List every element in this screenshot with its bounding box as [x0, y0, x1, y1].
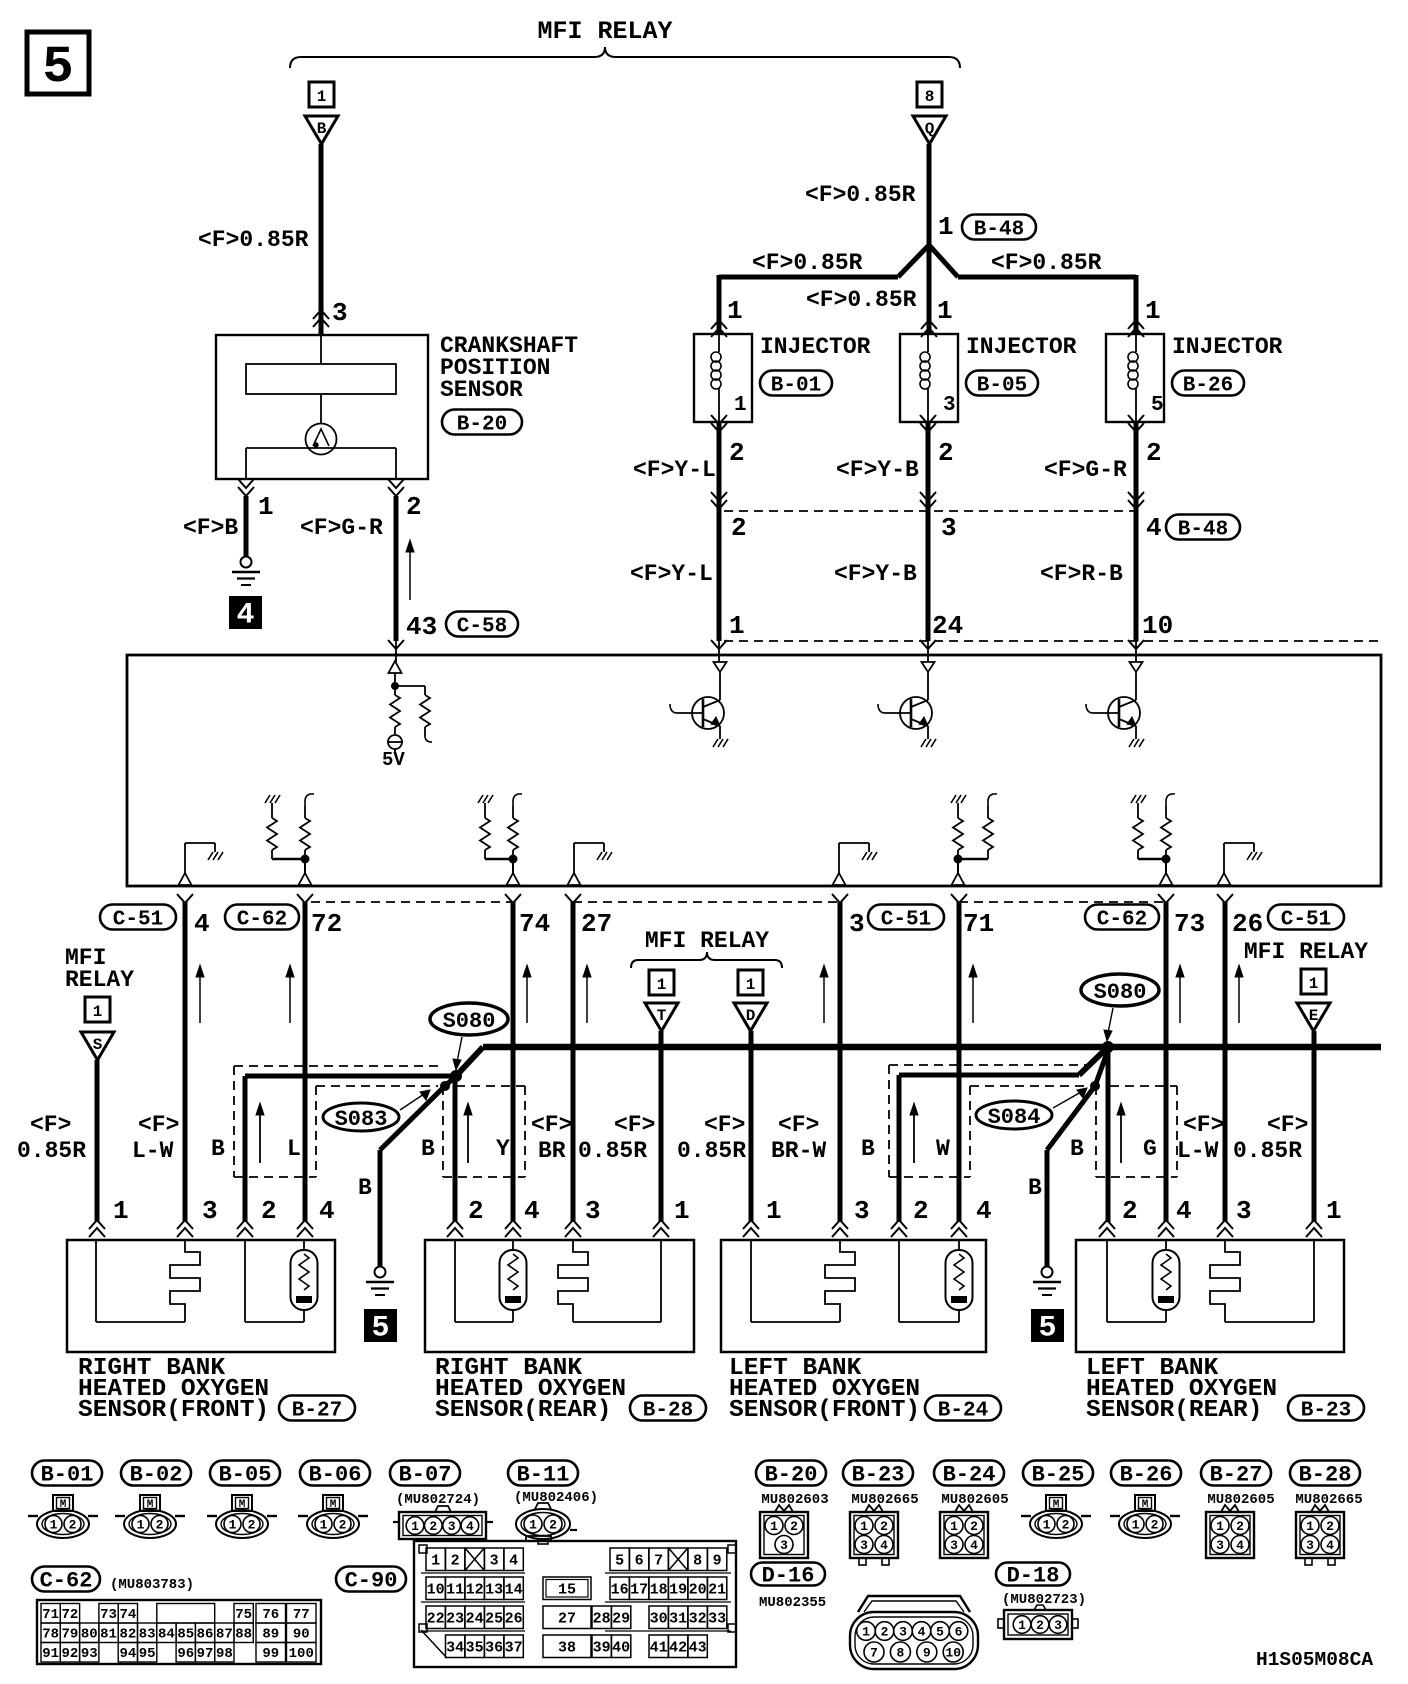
svg-text:2: 2	[1122, 1196, 1138, 1226]
svg-text:2: 2	[429, 1519, 437, 1534]
svg-text:95: 95	[139, 1646, 156, 1662]
svg-text:89: 89	[262, 1627, 279, 1643]
svg-text:2: 2	[1236, 1519, 1244, 1534]
svg-text:2: 2	[248, 1518, 256, 1533]
svg-text:BR: BR	[538, 1138, 566, 1164]
svg-text:43: 43	[689, 1640, 707, 1657]
svg-text:<F>: <F>	[138, 1112, 179, 1138]
svg-text:0.85R: 0.85R	[1233, 1138, 1302, 1164]
svg-text:<F>Y-B: <F>Y-B	[834, 561, 917, 587]
svg-text:74: 74	[119, 1607, 136, 1623]
svg-text:22: 22	[427, 1611, 445, 1628]
svg-text:INJECTOR: INJECTOR	[760, 334, 871, 360]
svg-text:5: 5	[1151, 394, 1164, 417]
svg-text:INJECTOR: INJECTOR	[966, 334, 1077, 360]
svg-text:75: 75	[235, 1607, 252, 1623]
svg-text:1: 1	[727, 296, 743, 326]
svg-text:B-20: B-20	[457, 413, 507, 436]
svg-text:MU802355: MU802355	[759, 1595, 826, 1611]
svg-text:19: 19	[669, 1582, 687, 1599]
svg-text:MU802605: MU802605	[941, 1492, 1008, 1508]
svg-text:14: 14	[505, 1582, 523, 1599]
svg-text:34: 34	[446, 1640, 464, 1657]
svg-text:3: 3	[1054, 1618, 1062, 1633]
svg-text:SENSOR(REAR): SENSOR(REAR)	[1086, 1397, 1262, 1424]
svg-text:3: 3	[943, 394, 956, 417]
svg-text:B-23: B-23	[852, 1463, 905, 1488]
svg-text:82: 82	[119, 1627, 136, 1643]
svg-text:B-06: B-06	[309, 1463, 362, 1488]
svg-text:23: 23	[446, 1611, 464, 1628]
svg-text:4: 4	[1176, 1196, 1192, 1226]
svg-text:<F>G-R: <F>G-R	[1044, 457, 1127, 483]
svg-text:2: 2	[69, 1518, 77, 1533]
svg-text:2: 2	[156, 1518, 164, 1533]
svg-text:0.85R: 0.85R	[578, 1138, 647, 1164]
svg-text:4: 4	[918, 1625, 926, 1640]
svg-text:4: 4	[524, 1196, 540, 1226]
svg-text:42: 42	[669, 1640, 687, 1657]
svg-text:2: 2	[881, 1625, 889, 1640]
svg-text:B-05: B-05	[219, 1463, 272, 1488]
svg-text:<F>: <F>	[704, 1112, 745, 1138]
svg-text:C-62: C-62	[1097, 908, 1147, 931]
svg-text:2: 2	[913, 1196, 929, 1226]
svg-text:SENSOR: SENSOR	[440, 377, 523, 403]
svg-text:1: 1	[860, 1519, 868, 1534]
svg-text:8: 8	[693, 1553, 702, 1570]
svg-text:2: 2	[1326, 1519, 1334, 1534]
svg-text:2: 2	[729, 438, 745, 468]
svg-text:1: 1	[766, 1196, 782, 1226]
svg-text:C-51: C-51	[881, 908, 931, 931]
svg-text:MU802665: MU802665	[1295, 1492, 1362, 1508]
svg-text:Y: Y	[496, 1136, 510, 1162]
svg-text:85: 85	[177, 1627, 194, 1643]
svg-text:B: B	[211, 1136, 225, 1162]
svg-text:29: 29	[612, 1611, 630, 1628]
svg-text:<F>: <F>	[1267, 1112, 1308, 1138]
svg-text:4: 4	[1236, 1538, 1244, 1553]
svg-text:1: 1	[657, 976, 667, 994]
svg-text:B-24: B-24	[938, 1399, 988, 1422]
svg-text:12: 12	[466, 1582, 484, 1599]
svg-text:6: 6	[955, 1625, 963, 1640]
svg-text:B-28: B-28	[1299, 1463, 1352, 1488]
svg-text:3: 3	[854, 1196, 870, 1226]
svg-text:B-25: B-25	[1032, 1463, 1085, 1488]
svg-text:1: 1	[50, 1518, 58, 1533]
svg-text:1: 1	[229, 1518, 237, 1533]
svg-text:(MU803783): (MU803783)	[110, 1577, 194, 1593]
svg-text:L-W: L-W	[132, 1138, 174, 1164]
svg-text:43: 43	[406, 612, 437, 642]
svg-text:81: 81	[100, 1627, 117, 1643]
svg-text:BR-W: BR-W	[771, 1138, 826, 1164]
svg-text:39: 39	[593, 1640, 611, 1657]
svg-text:38: 38	[558, 1640, 576, 1657]
svg-text:D-16: D-16	[762, 1564, 815, 1589]
svg-text:1: 1	[1216, 1519, 1224, 1534]
svg-text:1: 1	[770, 1519, 778, 1534]
svg-text:2: 2	[549, 1518, 557, 1533]
svg-text:7: 7	[870, 1646, 878, 1661]
svg-text:1: 1	[113, 1196, 129, 1226]
svg-text:27: 27	[581, 909, 612, 939]
svg-text:1: 1	[93, 1003, 103, 1021]
svg-text:5: 5	[42, 38, 73, 97]
svg-text:96: 96	[177, 1646, 194, 1662]
svg-text:20: 20	[689, 1582, 707, 1599]
svg-text:<F>0.85R: <F>0.85R	[991, 250, 1102, 276]
svg-text:13: 13	[485, 1582, 503, 1599]
svg-text:4: 4	[880, 1538, 888, 1553]
svg-text:B: B	[421, 1136, 435, 1162]
svg-text:B-02: B-02	[130, 1463, 183, 1488]
svg-text:2: 2	[261, 1196, 277, 1226]
svg-text:B-48: B-48	[974, 218, 1024, 241]
svg-text:SENSOR(FRONT): SENSOR(FRONT)	[78, 1397, 269, 1424]
svg-text:C-90: C-90	[345, 1569, 398, 1594]
svg-text:<F>0.85R: <F>0.85R	[198, 227, 309, 253]
svg-text:2: 2	[406, 492, 422, 522]
svg-text:1: 1	[950, 1519, 958, 1534]
svg-text:10: 10	[427, 1582, 445, 1599]
svg-text:1: 1	[1132, 1518, 1140, 1533]
svg-text:0.85R: 0.85R	[17, 1138, 86, 1164]
svg-text:B: B	[861, 1136, 875, 1162]
svg-text:3: 3	[202, 1196, 218, 1226]
svg-text:B-11: B-11	[517, 1463, 570, 1488]
svg-text:5: 5	[936, 1625, 944, 1640]
svg-text:SENSOR(REAR): SENSOR(REAR)	[435, 1397, 611, 1424]
svg-text:84: 84	[158, 1627, 175, 1643]
svg-text:2: 2	[1062, 1518, 1070, 1533]
svg-text:1: 1	[317, 88, 327, 106]
svg-text:2: 2	[1146, 438, 1162, 468]
svg-text:B-26: B-26	[1183, 374, 1233, 397]
svg-text:B-27: B-27	[292, 1399, 342, 1422]
svg-text:B-27: B-27	[1210, 1463, 1263, 1488]
svg-text:2: 2	[970, 1519, 978, 1534]
svg-text:S080: S080	[443, 1009, 496, 1034]
svg-text:3: 3	[1306, 1538, 1314, 1553]
svg-text:MFI RELAY: MFI RELAY	[1244, 939, 1368, 965]
svg-text:4: 4	[194, 909, 210, 939]
svg-text:71: 71	[963, 909, 994, 939]
svg-text:Q: Q	[925, 120, 935, 138]
svg-text:B: B	[358, 1175, 372, 1201]
svg-text:B-48: B-48	[1178, 518, 1228, 541]
svg-text:1: 1	[1306, 1519, 1314, 1534]
svg-text:1: 1	[529, 1518, 537, 1533]
svg-text:<F>B: <F>B	[183, 515, 238, 541]
svg-text:<F>0.85R: <F>0.85R	[752, 250, 863, 276]
svg-text:<F>0.85R: <F>0.85R	[806, 287, 917, 313]
svg-text:D-18: D-18	[1007, 1564, 1060, 1589]
svg-text:C-58: C-58	[457, 615, 507, 638]
svg-text:S080: S080	[1094, 980, 1147, 1005]
svg-text:26: 26	[1232, 909, 1263, 939]
svg-text:B-20: B-20	[765, 1463, 818, 1488]
svg-text:B-07: B-07	[399, 1463, 452, 1488]
svg-text:8: 8	[925, 88, 935, 106]
svg-text:1: 1	[937, 296, 953, 326]
svg-text:5: 5	[615, 1553, 624, 1570]
svg-text:MFI RELAY: MFI RELAY	[645, 928, 769, 954]
svg-text:2: 2	[1151, 1518, 1159, 1533]
svg-text:3: 3	[585, 1196, 601, 1226]
svg-text:1: 1	[734, 394, 747, 417]
svg-text:4: 4	[970, 1538, 978, 1553]
svg-text:86: 86	[197, 1627, 214, 1643]
svg-text:5: 5	[371, 1312, 389, 1346]
svg-text:3: 3	[780, 1538, 788, 1553]
svg-text:99: 99	[262, 1646, 279, 1662]
svg-text:4: 4	[466, 1519, 474, 1534]
svg-text:T: T	[657, 1007, 667, 1025]
svg-text:1: 1	[729, 611, 745, 641]
svg-text:35: 35	[466, 1640, 484, 1657]
svg-text:4: 4	[1326, 1538, 1334, 1553]
svg-text:2: 2	[451, 1553, 460, 1570]
svg-text:S084: S084	[988, 1105, 1041, 1130]
svg-text:1: 1	[1018, 1618, 1026, 1633]
svg-text:S: S	[93, 1036, 103, 1054]
svg-text:11: 11	[446, 1582, 464, 1599]
svg-text:27: 27	[558, 1611, 576, 1628]
svg-text:87: 87	[216, 1627, 233, 1643]
svg-text:1: 1	[674, 1196, 690, 1226]
svg-text:B: B	[1028, 1175, 1042, 1201]
svg-text:<F>: <F>	[531, 1112, 572, 1138]
svg-text:4: 4	[319, 1196, 335, 1226]
svg-text:B-24: B-24	[943, 1463, 996, 1488]
svg-text:72: 72	[311, 909, 342, 939]
svg-text:B: B	[1070, 1136, 1084, 1162]
svg-text:88: 88	[235, 1627, 252, 1643]
svg-text:77: 77	[293, 1607, 310, 1623]
svg-text:MU802603: MU802603	[761, 1492, 828, 1508]
svg-text:L-W: L-W	[1177, 1138, 1219, 1164]
svg-text:76: 76	[262, 1607, 279, 1623]
svg-text:93: 93	[81, 1646, 98, 1662]
svg-text:RELAY: RELAY	[65, 967, 134, 993]
svg-text:C-62: C-62	[237, 908, 287, 931]
svg-text:<F>: <F>	[30, 1112, 71, 1138]
svg-text:4: 4	[509, 1553, 518, 1570]
svg-text:73: 73	[100, 1607, 117, 1623]
svg-text:24: 24	[466, 1611, 484, 1628]
svg-text:1: 1	[1043, 1518, 1051, 1533]
svg-text:B-28: B-28	[643, 1399, 693, 1422]
svg-text:L: L	[287, 1136, 301, 1162]
svg-text:15: 15	[558, 1582, 576, 1599]
svg-text:1: 1	[746, 976, 756, 994]
svg-text:2: 2	[731, 513, 747, 543]
svg-text:10: 10	[1142, 611, 1173, 641]
svg-text:<F>Y-L: <F>Y-L	[633, 457, 716, 483]
svg-text:3: 3	[490, 1553, 499, 1570]
svg-text:36: 36	[485, 1640, 503, 1657]
svg-text:9: 9	[713, 1553, 722, 1570]
svg-text:4: 4	[1146, 513, 1162, 543]
svg-text:40: 40	[612, 1640, 630, 1657]
svg-text:1: 1	[862, 1625, 870, 1640]
svg-text:<F>: <F>	[778, 1112, 819, 1138]
svg-text:W: W	[936, 1136, 950, 1162]
svg-text:1: 1	[938, 212, 954, 242]
svg-text:6: 6	[635, 1553, 644, 1570]
svg-text:8: 8	[896, 1646, 904, 1661]
svg-text:3: 3	[849, 909, 865, 939]
svg-text:G: G	[1143, 1136, 1157, 1162]
svg-text:7: 7	[654, 1553, 663, 1570]
svg-text:41: 41	[650, 1640, 668, 1657]
svg-text:1: 1	[1326, 1196, 1342, 1226]
svg-text:28: 28	[593, 1611, 611, 1628]
svg-text:4: 4	[976, 1196, 992, 1226]
svg-text:<F>0.85R: <F>0.85R	[805, 182, 916, 208]
svg-text:31: 31	[669, 1611, 687, 1628]
svg-text:<F>R-B: <F>R-B	[1040, 561, 1123, 587]
svg-text:83: 83	[139, 1627, 156, 1643]
svg-text:72: 72	[62, 1607, 79, 1623]
svg-text:(MU802406): (MU802406)	[514, 1490, 598, 1506]
svg-text:H1S05M08CA: H1S05M08CA	[1256, 1649, 1373, 1671]
svg-text:24: 24	[932, 611, 963, 641]
svg-text:4: 4	[236, 599, 254, 633]
svg-text:97: 97	[197, 1646, 214, 1662]
svg-text:B-05: B-05	[977, 374, 1027, 397]
svg-text:C-51: C-51	[113, 908, 163, 931]
svg-text:25: 25	[485, 1611, 503, 1628]
svg-text:32: 32	[689, 1611, 707, 1628]
svg-text:B-26: B-26	[1120, 1463, 1173, 1488]
svg-text:MFI RELAY: MFI RELAY	[537, 17, 672, 46]
svg-text:3: 3	[950, 1538, 958, 1553]
svg-text:MU802665: MU802665	[851, 1492, 918, 1508]
svg-text:80: 80	[81, 1627, 98, 1643]
svg-text:1: 1	[431, 1553, 440, 1570]
svg-text:2: 2	[1036, 1618, 1044, 1633]
svg-text:30: 30	[650, 1611, 668, 1628]
svg-text:1: 1	[258, 492, 274, 522]
svg-text:17: 17	[630, 1582, 648, 1599]
svg-text:C-51: C-51	[1281, 908, 1331, 931]
svg-text:33: 33	[708, 1611, 726, 1628]
svg-text:71: 71	[42, 1607, 59, 1623]
svg-text:E: E	[1309, 1007, 1319, 1025]
svg-text:B-23: B-23	[1301, 1399, 1351, 1422]
svg-text:<F>: <F>	[614, 1112, 655, 1138]
svg-text:78: 78	[42, 1627, 59, 1643]
svg-text:9: 9	[923, 1646, 931, 1661]
svg-text:B-01: B-01	[771, 374, 821, 397]
svg-text:79: 79	[62, 1627, 79, 1643]
svg-text:INJECTOR: INJECTOR	[1172, 334, 1283, 360]
svg-text:2: 2	[880, 1519, 888, 1534]
svg-text:37: 37	[505, 1640, 523, 1657]
svg-text:2: 2	[790, 1519, 798, 1534]
svg-text:3: 3	[860, 1538, 868, 1553]
svg-text:16: 16	[611, 1582, 629, 1599]
svg-text:S083: S083	[335, 1107, 388, 1132]
svg-text:1: 1	[137, 1518, 145, 1533]
svg-text:<F>: <F>	[1183, 1112, 1224, 1138]
svg-text:2: 2	[938, 438, 954, 468]
svg-text:10: 10	[945, 1646, 961, 1661]
svg-text:91: 91	[42, 1646, 59, 1662]
svg-text:B-01: B-01	[41, 1463, 94, 1488]
svg-text:74: 74	[519, 909, 550, 939]
svg-text:1: 1	[320, 1518, 328, 1533]
svg-text:<F>G-R: <F>G-R	[300, 515, 383, 541]
svg-text:5: 5	[1038, 1312, 1056, 1346]
svg-text:1: 1	[1309, 975, 1319, 993]
svg-text:3: 3	[332, 298, 348, 328]
svg-text:MU802605: MU802605	[1207, 1492, 1274, 1508]
svg-text:<F>Y-L: <F>Y-L	[630, 561, 713, 587]
svg-text:3: 3	[899, 1625, 907, 1640]
svg-text:73: 73	[1174, 909, 1205, 939]
svg-text:2: 2	[468, 1196, 484, 1226]
svg-text:SENSOR(FRONT): SENSOR(FRONT)	[729, 1397, 920, 1424]
svg-text:B: B	[317, 120, 327, 138]
svg-text:<F>Y-B: <F>Y-B	[836, 457, 919, 483]
svg-text:90: 90	[293, 1627, 310, 1643]
svg-text:C-62: C-62	[40, 1569, 93, 1594]
svg-text:2: 2	[339, 1518, 347, 1533]
svg-text:26: 26	[505, 1611, 523, 1628]
svg-text:1: 1	[411, 1519, 419, 1534]
svg-text:3: 3	[941, 513, 957, 543]
svg-text:3: 3	[1236, 1196, 1252, 1226]
svg-text:3: 3	[448, 1519, 456, 1534]
svg-text:1: 1	[1145, 296, 1161, 326]
svg-text:0.85R: 0.85R	[677, 1138, 746, 1164]
svg-text:94: 94	[119, 1646, 136, 1662]
svg-text:18: 18	[650, 1582, 668, 1599]
svg-text:D: D	[746, 1007, 756, 1025]
svg-text:5V: 5V	[382, 749, 405, 771]
svg-text:100: 100	[289, 1646, 314, 1662]
svg-text:98: 98	[216, 1646, 233, 1662]
svg-text:21: 21	[708, 1582, 726, 1599]
svg-text:3: 3	[1216, 1538, 1224, 1553]
svg-text:92: 92	[62, 1646, 79, 1662]
